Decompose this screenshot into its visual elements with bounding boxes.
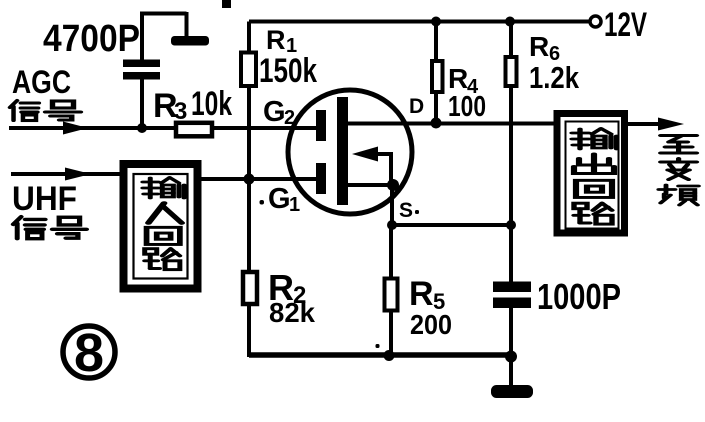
svg-text:R: R — [409, 275, 434, 313]
svg-text:S: S — [399, 199, 413, 222]
svg-text:100: 100 — [448, 91, 486, 123]
svg-text:1000P: 1000P — [537, 276, 621, 317]
svg-text:200: 200 — [410, 309, 452, 340]
svg-text:R: R — [448, 63, 468, 94]
svg-text:2: 2 — [284, 107, 295, 129]
svg-text:G: G — [268, 183, 291, 215]
svg-text:150k: 150k — [259, 52, 317, 90]
svg-text:AGC: AGC — [12, 64, 71, 100]
svg-text:82k: 82k — [269, 297, 315, 328]
svg-text:R: R — [266, 25, 286, 55]
svg-text:1.2k: 1.2k — [529, 60, 580, 95]
svg-text:1: 1 — [289, 194, 300, 216]
svg-text:R: R — [529, 31, 549, 62]
svg-text:G: G — [263, 96, 286, 128]
svg-text:3: 3 — [174, 98, 187, 125]
svg-text:D: D — [409, 95, 424, 118]
svg-text:10k: 10k — [191, 85, 232, 123]
svg-text:4700P: 4700P — [43, 18, 140, 60]
svg-text:UHF: UHF — [12, 180, 77, 218]
svg-text:8: 8 — [74, 323, 104, 383]
svg-text:12V: 12V — [604, 6, 647, 44]
